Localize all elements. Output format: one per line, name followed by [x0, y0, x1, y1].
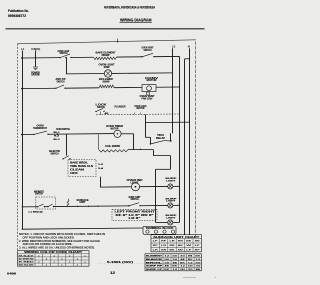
wire: row F to N rail — [145, 121, 190, 123]
svg-text:COIL 2950W: COIL 2950W — [105, 144, 120, 148]
lamp: surface indicator 3 — [168, 220, 173, 225]
svg-text:WIRING COLOR CODE CHART: WIRING COLOR CODE CHART — [24, 250, 82, 254]
switch: door lock switch — [95, 111, 96, 112]
lamp: oven light — [104, 70, 111, 77]
svg-text:BU-3: BU-3 — [54, 139, 61, 141]
switch: oven vent switch — [141, 56, 142, 57]
wire: bottom return — [22, 228, 143, 229]
svg-text:OFF: OFF — [70, 172, 79, 175]
svg-text:WIRING DIAGRAM: WIRING DIAGRAM — [120, 17, 152, 22]
svg-text:LR 6": LR 6" — [129, 217, 141, 220]
selector chart (dashed box) — [68, 160, 96, 177]
svg-text:W WHITE: W WHITE — [19, 258, 35, 260]
wire: selector drop — [66, 134, 68, 155]
svg-text:W: W — [186, 245, 191, 247]
svg-text:MOTOR: MOTOR — [111, 127, 120, 131]
switch: oven thermostat — [33, 134, 34, 135]
resistor: bake element — [94, 57, 117, 60]
svg-text:BK-1: BK-1 — [54, 132, 61, 134]
svg-text:40W: 40W — [104, 65, 110, 69]
wire: ground rail GN(S) — [35, 51, 37, 67]
svg-text:LIGHT: LIGHT — [131, 180, 139, 184]
switch: infinite switch P1 — [37, 206, 38, 207]
svg-text:SURFACE UNIT CHART: SURFACE UNIT CHART — [153, 235, 199, 239]
svg-text:5995308772: 5995308772 — [8, 14, 26, 18]
svg-text:THERMOSTAT: THERMOSTAT — [33, 126, 47, 130]
header rule — [6, 28, 205, 30]
wire: oven light row — [66, 73, 104, 75]
svg-text:GN(S): GN(S) — [31, 47, 40, 51]
svg-text:FAN 120V: FAN 120V — [142, 96, 153, 100]
motor: oven timer — [114, 130, 121, 137]
wire: lamp 3 row — [156, 221, 168, 223]
receptacle chart (dashed box) — [112, 209, 157, 220]
svg-text:BROIL: BROIL — [146, 262, 164, 264]
svg-text:SWITCH: SWITCH — [131, 197, 139, 201]
switch: selector — [62, 158, 63, 159]
svg-text:LIGHT: LIGHT — [166, 217, 176, 219]
svg-text:SURF RF: SURF RF — [146, 266, 163, 268]
svg-text:CLEAN: CLEAN — [70, 169, 84, 172]
lamp: surface indicator 2 — [168, 203, 173, 208]
switch: TB switch — [55, 88, 56, 89]
footer dotted line — [98, 263, 143, 265]
wire: return rail A — [179, 57, 181, 223]
svg-text:MOTOR: MOTOR — [147, 78, 158, 82]
lamp: surface indicator 1 — [168, 184, 173, 189]
svg-text:SWITCH: SWITCH — [60, 51, 68, 55]
wire: top border tick — [117, 39, 119, 43]
svg-text:SWITCH: SWITCH — [144, 48, 152, 52]
wire: coil return elbows — [153, 150, 155, 156]
wire: L3 rail — [172, 48, 174, 133]
svg-text:PLUNGER: PLUNGER — [115, 104, 127, 108]
svg-text:2600W: 2600W — [102, 53, 110, 57]
svg-text:LIGHT: LIGHT — [166, 201, 176, 203]
wire: linkage elbow to contact — [145, 136, 150, 138]
wire: coil to elbow — [128, 149, 153, 151]
cabinet border left (dashed) — [17, 44, 19, 251]
resistor: broil element — [99, 85, 114, 88]
svg-text:12: 12 — [110, 271, 115, 275]
switch: TDO relay contact — [150, 143, 151, 144]
svg-text:SWITCH: SWITCH — [97, 105, 105, 109]
terminal block TB1 — [143, 226, 176, 234]
wire: N to rail B link — [185, 58, 190, 60]
svg-text:N: N — [188, 44, 190, 48]
infinite switch box (dashed) — [36, 197, 56, 209]
wire: return rail B — [184, 59, 186, 235]
svg-text:SWITCH: SWITCH — [51, 151, 59, 155]
svg-text:TERMINAL BLOCK: TERMINAL BLOCK — [146, 227, 174, 230]
svg-text:5-1601 (19V): 5-1601 (19V) — [107, 260, 133, 264]
svg-text:OVEN SWITCH: OVEN SWITCH — [56, 127, 70, 131]
wire: thermostat row — [22, 133, 34, 135]
svg-text:L1 BK(14): L1 BK(14) — [29, 210, 43, 213]
svg-text:UNIT: UNIT — [80, 200, 86, 204]
wire: long drop to lamp row 3 — [155, 169, 157, 222]
footer scan line — [183, 277, 196, 279]
svg-text:L1: L1 — [21, 47, 25, 51]
coil: pilot element — [67, 200, 69, 206]
svg-text:GROUND: GROUND — [31, 73, 40, 77]
svg-text:LIGHT: LIGHT — [166, 180, 176, 182]
wire: stub from selector — [100, 177, 102, 188]
svg-text:BK BLACK: BK BLACK — [19, 254, 35, 257]
wire: mechanical linkage (dashed) — [96, 113, 179, 116]
svg-text:BU BLUE: BU BLUE — [19, 265, 35, 267]
wire gauge table — [145, 254, 202, 271]
lamp: oven indicator light — [132, 183, 140, 191]
svg-text:ELEMENT: ELEMENT — [146, 256, 163, 258]
wire: broil row — [22, 87, 56, 89]
terminal markings table — [151, 235, 202, 252]
cabinet border top — [17, 40, 195, 44]
motor U1 (boxed, convection fan) — [142, 85, 156, 92]
svg-text:L3: L3 — [172, 44, 176, 48]
lamp: small indicator below motor — [146, 92, 149, 95]
svg-text:RELAY: RELAY — [156, 137, 165, 140]
wire: N rail — [189, 48, 191, 235]
svg-text:BAKE: BAKE — [146, 258, 163, 261]
wire: L3 lower stub — [170, 133, 172, 141]
svg-text:TIME BAKE CLN: TIME BAKE CLN — [70, 165, 93, 168]
ground symbol — [33, 66, 38, 68]
svg-text:SWITCH: SWITCH — [35, 192, 43, 196]
wire: timer out — [121, 133, 134, 135]
svg-text:W: W — [195, 241, 200, 243]
wire color code table — [18, 251, 90, 267]
svg-text:FEF356BADA, FEF356CASA & FEF35: FEF356BADA, FEF356CASA & FEF356XESA — [104, 5, 155, 9]
wire: bottom row — [22, 206, 38, 208]
svg-text:OFF POSITION AND LOCK UNLOCKED: OFF POSITION AND LOCK UNLOCKED. — [23, 235, 75, 239]
svg-text:3. ALL WIRES ARE 18 GA. UNLESS: 3. ALL WIRES ARE 18 GA. UNLESS OTHERWISE… — [19, 245, 95, 249]
svg-text:2. WIRE IDENTIFICATION NUMBERS: 2. WIRE IDENTIFICATION NUMBERS, SEE CHAR… — [19, 239, 100, 243]
svg-text:3000W: 3000W — [103, 79, 110, 83]
wire: L1 to top row — [22, 57, 60, 59]
wire: indicator row — [100, 186, 132, 188]
svg-text:SURF LF: SURF LF — [146, 269, 163, 271]
switch: infinite switch P2 — [47, 206, 48, 207]
svg-text:R RED: R RED — [19, 262, 35, 264]
wire: L1 rail — [22, 51, 24, 230]
wire: lock motor drop — [145, 115, 147, 138]
cabinet border right (dashed) — [195, 41, 197, 236]
svg-text:SWITCH: SWITCH — [57, 79, 65, 83]
switch: surface light switch — [128, 205, 129, 206]
svg-text:W: W — [178, 249, 183, 251]
svg-text:BAKE BROIL: BAKE BROIL — [70, 161, 89, 164]
svg-text:MOTOR: MOTOR — [137, 106, 146, 110]
svg-text:Publication No.: Publication No. — [8, 9, 29, 13]
resistor: coil element — [99, 150, 128, 152]
wire: drop from light switch — [66, 58, 68, 74]
switch: oven light switch — [59, 57, 60, 58]
wire: timer drop — [133, 134, 135, 150]
svg-text:0498: 0498 — [7, 271, 16, 275]
